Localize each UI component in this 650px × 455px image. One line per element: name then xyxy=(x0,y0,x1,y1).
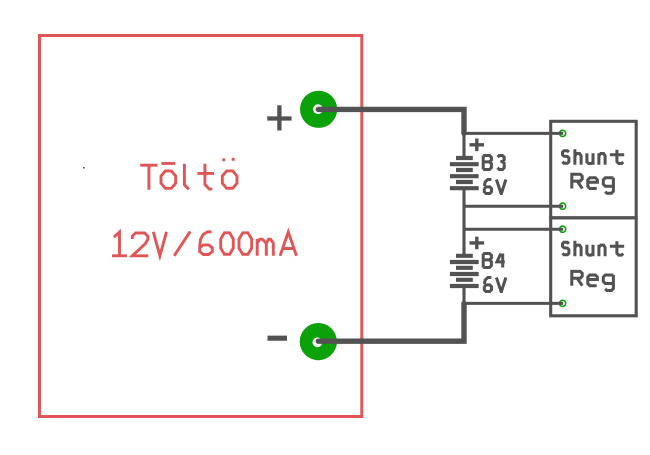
wire branch to U1 pin 2 (bottom) xyxy=(464,205,563,208)
label 6V (B4 voltage) xyxy=(484,278,506,292)
battery B4 cell plates xyxy=(450,256,479,286)
shunt regulator U1 box xyxy=(551,121,637,218)
label "12V/600mA" charger rating xyxy=(112,231,297,255)
charger box outline xyxy=(40,36,362,417)
label "Reg" (U2) xyxy=(572,271,614,290)
label "Shunt" (U1) xyxy=(563,149,625,165)
pin terminal ring U1 pin 1 (top) xyxy=(560,130,566,136)
label B4 xyxy=(483,254,505,268)
wire battery B4 negative down to bottom node xyxy=(462,286,465,305)
wire node top to battery B3 positive plate xyxy=(462,132,465,157)
pin terminal ring U2 pin 1 (top) xyxy=(560,226,566,232)
battery B4 plus mark xyxy=(470,237,485,250)
plus polarity mark at positive terminal xyxy=(267,105,291,130)
label "Reg" (U1) xyxy=(572,174,614,193)
label B3 xyxy=(483,156,504,170)
negative terminal binding post (green) xyxy=(300,323,337,360)
label "Shunt" (U2) xyxy=(563,241,625,256)
minus polarity mark at negative terminal xyxy=(268,336,288,341)
label "Tōltö" charger name xyxy=(140,158,237,190)
wire branch to U1 pin 1 (top) xyxy=(464,132,563,135)
battery B3 cell plates xyxy=(450,158,479,188)
label 6V (B3 voltage) xyxy=(484,180,506,194)
wire branch to U2 pin 2 (bottom) xyxy=(464,302,563,305)
wire branch to U2 pin 1 (top) xyxy=(464,228,563,231)
shunt regulator U2 box xyxy=(551,218,637,316)
pin terminal ring U2 pin 2 (bottom) xyxy=(560,300,566,306)
pin terminal ring U1 pin 2 (bottom) xyxy=(560,203,566,209)
positive terminal binding post (green) xyxy=(300,91,337,128)
wire from negative terminal to node at bottom of B4 string xyxy=(318,303,464,341)
stray dot artifact xyxy=(83,167,85,169)
battery B3 plus mark xyxy=(470,139,485,152)
wire from positive terminal to node at top of B3 string xyxy=(318,109,464,133)
wire battery B3 negative to battery B4 positive (junctions to regulators) xyxy=(462,188,465,256)
